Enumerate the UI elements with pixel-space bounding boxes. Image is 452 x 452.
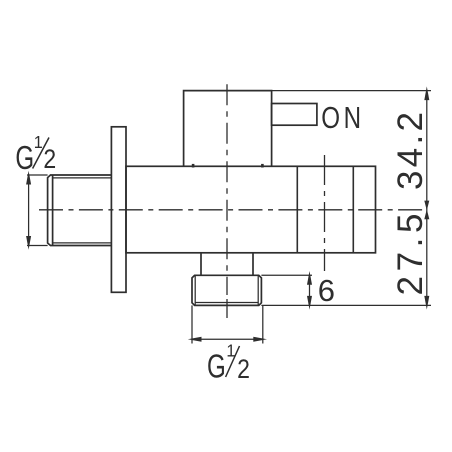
centerline vertical main: tail dash (226, 299, 228, 318)
svg-text:34.2: 34.2 (391, 112, 430, 190)
dimension G1/2 bottom: dimension line (192, 338, 263, 340)
svg-text:ON: ON (321, 100, 364, 135)
pipe thread root lines (53, 178, 112, 243)
centerline vertical outlet (324, 155, 326, 271)
body internal line left (296, 166, 298, 253)
nipple: bottom G1/2 threaded outlet (192, 275, 261, 305)
handle (272, 104, 317, 126)
svg-text:1: 1 (34, 132, 43, 152)
neck below body (201, 253, 253, 275)
dimension G1/2 bottom: label (207, 341, 250, 386)
dimension G1/2 left: label (15, 132, 56, 177)
svg-text:27.5: 27.5 (391, 214, 430, 296)
centerline vertical main (226, 84, 228, 295)
pipe: left G1/2 threaded inlet (48, 175, 112, 246)
dimension G1/2 left: fraction slash (33, 138, 49, 169)
centerline horizontal (39, 209, 427, 211)
dimension right: arrowheads (424, 86, 429, 309)
dimension 6: extension line (261, 275, 312, 305)
dimension G1/2 left: extension lines (27, 175, 48, 246)
dimension G1/2 bottom: extension lines (192, 305, 263, 343)
dimension G1/2 bottom: arrowheads (188, 337, 267, 342)
svg-text:2: 2 (237, 355, 250, 384)
svg-text:G: G (207, 349, 226, 386)
body (126, 166, 376, 253)
dimension G1/2 left: arrowheads (26, 171, 31, 250)
dimension 6: dimension line (309, 275, 311, 305)
dimension line right (426, 91, 428, 306)
svg-text:2: 2 (43, 146, 56, 175)
dimension G1/2 bottom: fraction slash (226, 346, 240, 377)
nipple thread root lines (195, 275, 258, 305)
junction tick right on body top (261, 164, 264, 168)
flange (111, 127, 126, 292)
body internal line right (352, 166, 354, 253)
svg-text:G: G (15, 140, 34, 177)
dimension G1/2 left: dimension line (28, 175, 30, 246)
dimension 6: arrowheads (307, 271, 312, 310)
svg-text:6: 6 (318, 273, 335, 308)
dimension 34.2 / 27.5 right: extension lines (261, 91, 431, 306)
junction tick left on body top (192, 164, 195, 168)
bonnet (184, 91, 272, 167)
